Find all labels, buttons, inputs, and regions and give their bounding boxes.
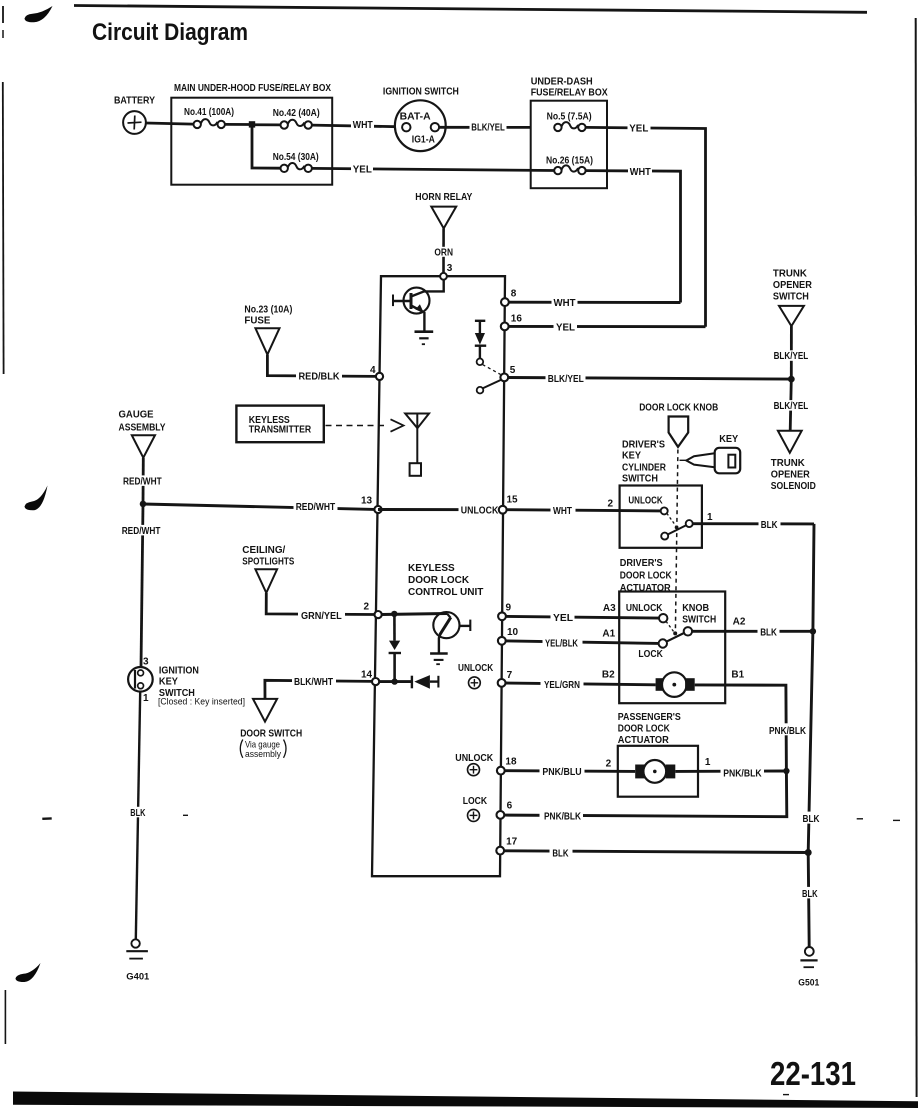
label WHT pin8 row [552,297,578,309]
svg-text:PNK/BLK: PNK/BLK [723,768,762,779]
svg-text:G401: G401 [126,971,149,981]
trunk opener solenoid [771,431,816,492]
svg-text:No.41 (100A): No.41 (100A) [184,107,234,118]
svg-text:No.54 (30A): No.54 (30A) [273,152,319,163]
label BLK/YEL pin5 row [546,372,586,384]
svg-text:DOOR LOCK KNOB: DOOR LOCK KNOB [639,403,718,414]
label A1 [602,628,615,639]
svg-text:BATTERY: BATTERY [114,95,155,106]
svg-text:3: 3 [447,263,453,274]
svg-text:IGNITION SWITCH: IGNITION SWITCH [383,86,459,97]
svg-text:BLK/YEL: BLK/YEL [774,351,809,362]
svg-text:RED/BLK: RED/BLK [299,372,341,383]
wire junction to fuse42 [252,123,280,126]
svg-text:G501: G501 [798,977,819,987]
svg-text:YEL: YEL [353,164,372,175]
label UNLOCK pin18 [455,753,494,764]
wire pin10 YEL/BLK to actuator lock [506,641,659,644]
label YEL pin9 row [551,611,575,624]
unlock indicator circle pin7 [469,677,481,689]
pin 1 label key cylinder [707,512,713,523]
fuse No.42 (40A) [273,108,320,129]
svg-text:KEY: KEY [159,677,178,688]
fuse No.54 (30A) [273,152,319,172]
svg-text:TRANSMITTER: TRANSMITTER [249,424,312,435]
scan artifact dashes [42,815,900,1094]
actuator knob switch contacts [659,614,693,648]
svg-text:SOLENOID: SOLENOID [771,481,816,492]
node pin 10 [498,627,519,645]
wire pin2 interior to transistor Q2 [382,614,447,615]
wire fuse54 YEL to under-dash box fuse26 [312,168,554,170]
node pin 5 [500,365,515,381]
trunk opener switch [773,269,813,327]
svg-text:B2: B2 [602,670,615,681]
label BLK key cylinder row [759,518,781,530]
binding swoosh mark bottom-left [16,963,41,982]
ground under Q1 [415,332,434,345]
svg-text:[Closed : Key inserted]: [Closed : Key inserted] [158,696,245,706]
wire passenger motor PNK/BLK to junction [675,770,786,773]
driver's key cylinder switch label [622,439,667,484]
svg-text:UNDER-DASH: UNDER-DASH [531,76,593,87]
motor M1 driver's actuator [656,672,695,697]
svg-text:YEL: YEL [553,613,573,624]
node pin 9 [498,602,511,620]
label B1 [731,670,744,681]
svg-text:PNK/BLK: PNK/BLK [544,812,582,823]
label PNK/BLK vertical B1 [767,723,809,737]
svg-text:No.26 (15A): No.26 (15A) [546,156,593,167]
junction node trunk [788,376,795,383]
unlock indicator circle pin18 [468,764,480,776]
svg-text:SWITCH: SWITCH [773,291,809,302]
svg-text:10: 10 [507,627,519,638]
label RED/WHT horizontal [294,501,338,513]
svg-text:15: 15 [507,495,519,506]
wire key cylinder BLK to right vertical [693,522,814,525]
svg-text:IG1-A: IG1-A [412,134,435,145]
ceiling/spotlights connector [242,545,294,593]
label LOCK actuator [638,649,663,660]
svg-text:4: 4 [370,365,376,376]
ground G401 [126,939,149,981]
fuse No.26 (15A) [546,156,593,175]
label PNK/BLU [540,765,585,779]
svg-text:UNLOCK: UNLOCK [628,496,663,507]
diode D1 with switch to pin 5 [475,321,502,394]
Q1 emitter wire to ground [423,312,425,331]
pin 2 label key cylinder [608,499,614,510]
wire pin9 YEL to actuator unlock [506,616,659,618]
wire junction down to fuse54 row [252,125,280,169]
page bottom black bar [13,1092,918,1108]
page right border rule [915,18,918,1097]
svg-text:1: 1 [143,693,149,704]
svg-text:GAUGE: GAUGE [119,410,154,421]
keyless transmitter box [236,406,323,443]
node pin 14 [361,670,379,686]
label PNK/BLK passenger row [721,766,765,780]
svg-text:17: 17 [506,837,518,848]
node pin 3 [440,273,447,280]
key cylinder switch contacts [661,507,693,539]
junction dot under-hood box [249,121,255,127]
svg-text:CYLINDER: CYLINDER [622,462,667,473]
wire knob switch BLK to right vertical [692,630,813,633]
svg-text:WHT: WHT [554,298,576,309]
svg-text:IGNITION: IGNITION [159,665,199,676]
wire junction down to ignition key switch [141,504,143,667]
svg-text:DOOR LOCK: DOOR LOCK [408,575,470,586]
mechanical dashed link knob/key to switches [675,450,687,632]
wire battery to fuse box [146,123,193,124]
svg-text:YEL: YEL [629,123,648,134]
label A3 [603,603,616,614]
svg-text:FUSE/RELAY BOX: FUSE/RELAY BOX [531,87,608,98]
svg-text:WHT: WHT [630,167,651,178]
ignition switch IG [383,86,459,151]
driver's key cylinder switch box [620,486,702,548]
junction node interior pin14 [391,678,397,684]
wire pin13 to pin15 inside box [378,508,503,511]
svg-text:BLK/YEL: BLK/YEL [774,401,809,412]
door lock knob [639,403,718,447]
wire pin15 WHT to key cylinder switch [507,510,661,511]
key symbol [686,434,740,473]
node pin 7 [498,670,513,687]
svg-text:HORN RELAY: HORN RELAY [415,192,472,203]
wire driver motor B1 right and down [695,685,787,771]
svg-text:OPENER: OPENER [773,280,813,291]
door switch connector [240,699,302,760]
node pin 17 [496,837,517,855]
svg-text:BLK: BLK [802,889,818,900]
title: Circuit Diagram [92,19,248,46]
svg-text:9: 9 [506,602,512,613]
wire fuse42 to ignition switch (WHT) [312,125,402,127]
svg-text:WHT: WHT [553,506,572,517]
svg-text:BLK: BLK [552,849,569,860]
label BLK right vertical upper [800,812,826,826]
label WHT row battery [351,120,374,132]
svg-text:UNLOCK: UNLOCK [461,505,499,516]
svg-text:2: 2 [608,499,614,510]
battery B1 [114,95,155,134]
svg-text:YEL: YEL [556,323,575,334]
svg-text:3: 3 [143,656,149,667]
label UNLOCK key cylinder [628,496,663,507]
node pin 13 [361,495,382,513]
label YEL under-dash row [628,122,651,134]
svg-text:2: 2 [364,602,370,613]
svg-text:No.23 (10A): No.23 (10A) [244,304,292,315]
svg-text:BLK/WHT: BLK/WHT [294,677,333,688]
label RED/WHT upper [121,475,164,487]
label YEL pin16 row [554,321,578,333]
wire junction to pin 13 [143,504,374,509]
svg-text:DOOR LOCK: DOOR LOCK [620,571,673,582]
wire trunk switch down to junction [790,326,793,379]
wire junction down to trunk solenoid [790,379,791,431]
svg-text:RED/WHT: RED/WHT [296,502,336,513]
svg-text:BLK/YEL: BLK/YEL [548,374,584,385]
svg-text:TRUNK: TRUNK [771,458,806,469]
binding swoosh mark mid-left [25,486,48,511]
node pin 16 [501,313,523,330]
motor M2 passenger's actuator [635,760,675,783]
label BLK/WHT [292,676,336,688]
svg-text:KEY: KEY [719,434,738,445]
svg-text:ACTUATOR: ACTUATOR [618,735,670,746]
driver's door lock actuator label [620,558,673,594]
svg-text:BLK: BLK [130,808,146,819]
wire pin5 BLK/YEL to trunk junction [508,378,791,380]
wire fuse23 to pin 4 (RED/BLK) [267,355,376,377]
svg-text:13: 13 [361,495,373,506]
svg-text:14: 14 [361,670,373,681]
svg-text:RED/WHT: RED/WHT [122,526,161,537]
label BLK/YEL ignition row [470,122,507,134]
label UNLOCK actuator [626,603,663,614]
svg-text:SWITCH: SWITCH [622,474,658,485]
node pin 18 [497,756,517,774]
svg-text:KEY: KEY [622,451,641,462]
wire pin18 PNK/BLU to passenger motor [505,769,635,773]
pin 1 label passenger [705,757,711,768]
svg-text:A3: A3 [603,603,616,614]
label B2 [602,670,615,681]
svg-text:TRUNK: TRUNK [773,269,808,280]
node pin 6 [497,801,513,819]
svg-text:8: 8 [511,288,517,299]
svg-text:16: 16 [511,313,523,324]
svg-text:WHT: WHT [353,120,373,131]
svg-text:DOOR LOCK: DOOR LOCK [618,723,671,734]
page top border rule [74,6,867,13]
knob switch label [682,603,716,625]
svg-text:LOCK: LOCK [463,796,488,807]
fuse No.23 (10A) connector [244,304,292,354]
node pin 4 [370,365,383,380]
wire pin14 interior [379,680,412,683]
svg-text:LOCK: LOCK [638,649,663,660]
svg-text:UNLOCK: UNLOCK [455,753,494,764]
ignition key switch [128,656,245,706]
lock indicator circle pin6 [468,809,480,821]
label RED/BLK [296,370,342,382]
svg-text:B1: B1 [731,670,744,681]
label BLK knob switch row [758,626,780,639]
svg-text:assembly: assembly [245,749,281,760]
svg-text:BLK: BLK [803,814,821,825]
fuse No.5 (7.5A) [547,111,592,131]
right BLK vertical wire to ground [808,524,814,947]
wire fuse41 to junction [225,123,252,126]
diode D3 horizontal [412,675,439,689]
wire fuse26 WHT right then down to pin8 row [586,171,681,303]
svg-text:A2: A2 [733,616,746,627]
svg-text:7: 7 [507,670,513,681]
junction node BLK vertical [810,628,816,634]
transistor Q2 [433,612,470,653]
label WHT pin15 row [551,504,576,516]
driver's door lock actuator box [619,592,725,704]
svg-text:18: 18 [505,756,517,767]
label YEL/BLK [543,637,583,650]
page number 22-131 [770,1055,856,1092]
wire ignition key switch to ground G401 [136,692,140,940]
fuse No.41 (100A) [184,107,234,128]
svg-text:YEL/BLK: YEL/BLK [545,638,579,649]
svg-text:A1: A1 [602,628,615,639]
svg-text:DRIVER'S: DRIVER'S [622,439,665,450]
wire pin8 WHT [509,301,681,304]
main under-hood fuse/relay box [171,83,332,185]
label BLK right vertical lower [800,887,822,900]
svg-text:22-131: 22-131 [770,1055,856,1092]
pin 3 label [447,263,453,274]
svg-text:No.5 (7.5A): No.5 (7.5A) [547,111,592,122]
svg-text:MAIN UNDER-HOOD FUSE/RELAY BOX: MAIN UNDER-HOOD FUSE/RELAY BOX [174,83,331,94]
svg-text:UNLOCK: UNLOCK [458,663,494,674]
svg-text:KEYLESS: KEYLESS [408,563,455,574]
dashed RF arrow transmitter to antenna [326,419,404,431]
svg-text:GRN/YEL: GRN/YEL [301,611,342,622]
keyless door lock control unit box [372,276,505,876]
svg-text:ASSEMBLY: ASSEMBLY [119,423,166,434]
left margin border marks [3,6,6,1044]
wire pin16 YEL [509,325,706,328]
label WHT under-dash row [628,166,652,178]
svg-text:2: 2 [606,759,612,770]
label BLK/YEL trunk switch [772,350,811,362]
svg-text:BLK: BLK [760,627,777,638]
label UNLOCK pin15 [459,504,501,516]
svg-text:PNK/BLU: PNK/BLU [542,767,581,778]
label GRN/YEL [298,609,345,622]
label UNLOCK pin7 [458,663,494,674]
junction node ground BLK [805,849,812,856]
label BLK left [128,807,148,819]
label ORN [433,247,455,258]
node pin 8 [501,288,517,306]
junction node red/wht [140,501,147,508]
passenger's door lock actuator box [618,746,698,797]
svg-text:CONTROL UNIT: CONTROL UNIT [408,587,483,598]
ground under Q2 [430,654,448,665]
svg-text:DRIVER'S: DRIVER'S [620,558,663,569]
passenger's door lock actuator label [618,712,681,746]
label BLK pin17 row [550,847,573,860]
label YEL/GRN [541,678,584,691]
label A2 [733,616,746,627]
junction node interior pin2 [391,611,397,617]
svg-text:RED/WHT: RED/WHT [123,476,162,487]
diode D2 vertical [389,614,401,682]
label LOCK pin6 [463,796,488,807]
antenna inside control unit [405,414,429,476]
label BLK/YEL trunk solenoid [772,400,811,412]
wire pin17 BLK to ground junction [504,851,808,853]
wire pin7 YEL/GRN to driver motor [506,683,656,685]
gauge assembly connector [119,410,166,458]
svg-text:ORN: ORN [434,247,453,258]
under-dash fuse/relay box [531,76,608,188]
svg-text:YEL/GRN: YEL/GRN [544,680,580,691]
wire fuse5 YEL right then down to pin16 row [586,127,706,326]
wire horn relay down to pin 3 [442,228,445,273]
svg-text:1: 1 [705,757,711,768]
svg-text:PNK/BLK: PNK/BLK [769,726,807,737]
svg-text:5: 5 [510,365,516,376]
wire ceiling to pin 2 (GRN/YEL) [266,593,374,615]
svg-text:BAT-A: BAT-A [400,111,431,122]
wire door switch to pin 14 (BLK/WHT) [265,680,372,699]
svg-text:No.42 (40A): No.42 (40A) [273,108,320,119]
horn relay connector [415,192,472,228]
svg-text:BLK: BLK [761,520,778,531]
svg-text:SPOTLIGHTS: SPOTLIGHTS [242,557,294,568]
svg-text:BLK/YEL: BLK/YEL [471,123,505,134]
svg-text:DOOR SWITCH: DOOR SWITCH [240,729,302,740]
pin 2 label passenger [606,759,612,770]
svg-text:UNLOCK: UNLOCK [626,603,663,614]
svg-text:Circuit Diagram: Circuit Diagram [92,19,248,46]
label YEL row fuse54 [351,164,373,176]
svg-text:6: 6 [507,801,513,812]
node pin 15 [499,495,518,514]
svg-text:CEILING/: CEILING/ [242,545,285,556]
svg-text:PASSENGER'S: PASSENGER'S [618,712,681,723]
label RED/WHT lower [120,525,163,537]
svg-text:FUSE: FUSE [244,316,270,327]
wire gauge assembly down to junction [142,458,145,504]
transistor Q1 horn relay driver [393,279,444,313]
svg-text:OPENER: OPENER [771,470,811,481]
svg-text:1: 1 [707,512,713,523]
label PNK/BLK pin6 row [540,809,584,823]
wire junction down and left to pin 6 [504,771,787,817]
binding swoosh mark top-left [25,6,53,22]
node pin 2 [364,602,382,619]
svg-text:SWITCH: SWITCH [682,614,716,625]
wire ignition switch to under-dash box (BLK/YEL) [439,126,531,129]
junction node PNK/BLK [783,768,789,774]
svg-text:KNOB: KNOB [682,603,709,614]
ground G501 [798,947,819,987]
